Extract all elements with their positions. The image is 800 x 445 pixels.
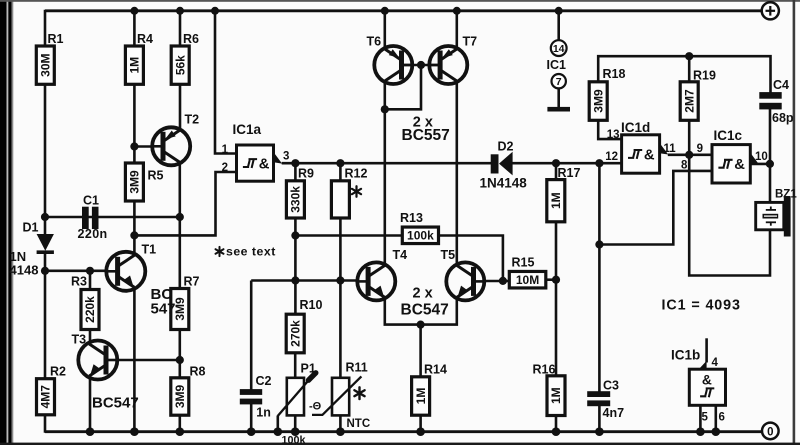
svg-text:5: 5	[702, 412, 709, 424]
svg-text:4: 4	[712, 357, 719, 369]
svg-text:R14: R14	[424, 363, 447, 377]
svg-text:IC1d: IC1d	[621, 120, 650, 135]
svg-text:100k: 100k	[282, 435, 307, 445]
svg-text:3M9: 3M9	[128, 170, 142, 194]
svg-text:T5: T5	[441, 248, 456, 262]
svg-text:R15: R15	[512, 256, 535, 270]
svg-text:R12: R12	[345, 167, 368, 181]
svg-text:2 x: 2 x	[413, 286, 433, 302]
svg-text:547: 547	[151, 301, 176, 318]
svg-text:IC1a: IC1a	[233, 122, 262, 137]
svg-text:IC1c: IC1c	[714, 128, 743, 143]
svg-text:1M: 1M	[549, 387, 563, 404]
svg-text:220k: 220k	[83, 296, 97, 323]
svg-text:BZ1: BZ1	[775, 189, 797, 201]
svg-text:C2: C2	[256, 374, 272, 388]
svg-text:IC1b: IC1b	[671, 348, 700, 363]
svg-text:30M: 30M	[39, 53, 53, 76]
svg-text:T6: T6	[367, 35, 382, 49]
svg-text:R2: R2	[50, 365, 66, 379]
svg-text:1M: 1M	[414, 388, 428, 405]
svg-text:68p: 68p	[772, 111, 794, 125]
svg-text:10M: 10M	[516, 273, 539, 287]
svg-text:1n: 1n	[256, 406, 271, 420]
svg-text:R4: R4	[137, 32, 153, 46]
svg-text:T7: T7	[463, 35, 478, 49]
svg-text:270k: 270k	[288, 320, 302, 347]
svg-text:4n7: 4n7	[603, 406, 625, 420]
svg-text:8: 8	[681, 159, 688, 171]
svg-text:1M: 1M	[128, 57, 142, 74]
svg-text:T2: T2	[185, 113, 200, 127]
svg-text:R1: R1	[48, 32, 64, 46]
svg-text:R16: R16	[533, 363, 556, 377]
svg-text:4148: 4148	[10, 263, 39, 278]
svg-text:P1: P1	[301, 362, 316, 376]
svg-text:330k: 330k	[289, 186, 303, 213]
svg-text:11: 11	[664, 143, 677, 155]
svg-text:7: 7	[556, 76, 562, 88]
svg-text:12: 12	[605, 151, 618, 163]
svg-text:-Θ: -Θ	[309, 401, 322, 413]
svg-text:10: 10	[755, 151, 768, 163]
svg-text:R6: R6	[183, 32, 199, 46]
svg-text:2: 2	[222, 162, 228, 174]
svg-text:R11: R11	[346, 361, 368, 375]
svg-text:14: 14	[553, 43, 565, 55]
svg-text:T3: T3	[72, 333, 87, 347]
svg-text:NTC: NTC	[347, 418, 371, 430]
svg-text:BC547: BC547	[401, 302, 449, 319]
svg-text:R19: R19	[693, 69, 716, 83]
svg-text:1: 1	[222, 144, 229, 156]
svg-text:T4: T4	[393, 248, 408, 262]
svg-text:&: &	[702, 373, 712, 388]
svg-text:R18: R18	[603, 67, 626, 81]
svg-text:9: 9	[697, 143, 703, 155]
svg-text:13: 13	[607, 129, 620, 141]
svg-text:4M7: 4M7	[39, 385, 53, 409]
svg-text:56k: 56k	[173, 55, 187, 75]
svg-text:IC1: IC1	[547, 58, 567, 72]
svg-text:1N4148: 1N4148	[480, 176, 528, 191]
svg-text:R3: R3	[71, 275, 87, 289]
svg-text:3: 3	[283, 151, 289, 163]
svg-text:BC557: BC557	[402, 127, 450, 144]
svg-text:IC1 = 4093: IC1 = 4093	[662, 298, 741, 314]
svg-text:R17: R17	[558, 166, 581, 180]
svg-text:see text: see text	[226, 245, 276, 259]
svg-text:R7: R7	[184, 275, 200, 289]
svg-text:R5: R5	[148, 169, 164, 183]
svg-text:0: 0	[767, 426, 773, 438]
svg-text:&: &	[644, 147, 655, 163]
svg-text:R10: R10	[300, 298, 323, 312]
svg-text:R13: R13	[400, 211, 423, 225]
svg-text:R8: R8	[190, 365, 206, 379]
svg-text:C3: C3	[603, 379, 619, 393]
svg-text:D1: D1	[23, 221, 39, 235]
svg-text:C1: C1	[83, 194, 99, 208]
svg-text:&: &	[259, 156, 270, 172]
svg-text:3M9: 3M9	[173, 385, 187, 409]
svg-text:2M7: 2M7	[682, 89, 696, 113]
svg-text:&: &	[734, 157, 745, 173]
svg-text:D2: D2	[498, 140, 514, 154]
svg-text:T1: T1	[142, 243, 157, 257]
svg-text:BC547: BC547	[92, 395, 139, 412]
svg-text:C4: C4	[773, 78, 789, 92]
svg-text:1M: 1M	[549, 192, 563, 209]
svg-text:R9: R9	[298, 167, 314, 181]
svg-text:100k: 100k	[407, 229, 434, 243]
svg-text:6: 6	[719, 412, 725, 424]
svg-text:220n: 220n	[78, 227, 108, 241]
svg-text:3M9: 3M9	[591, 89, 605, 113]
